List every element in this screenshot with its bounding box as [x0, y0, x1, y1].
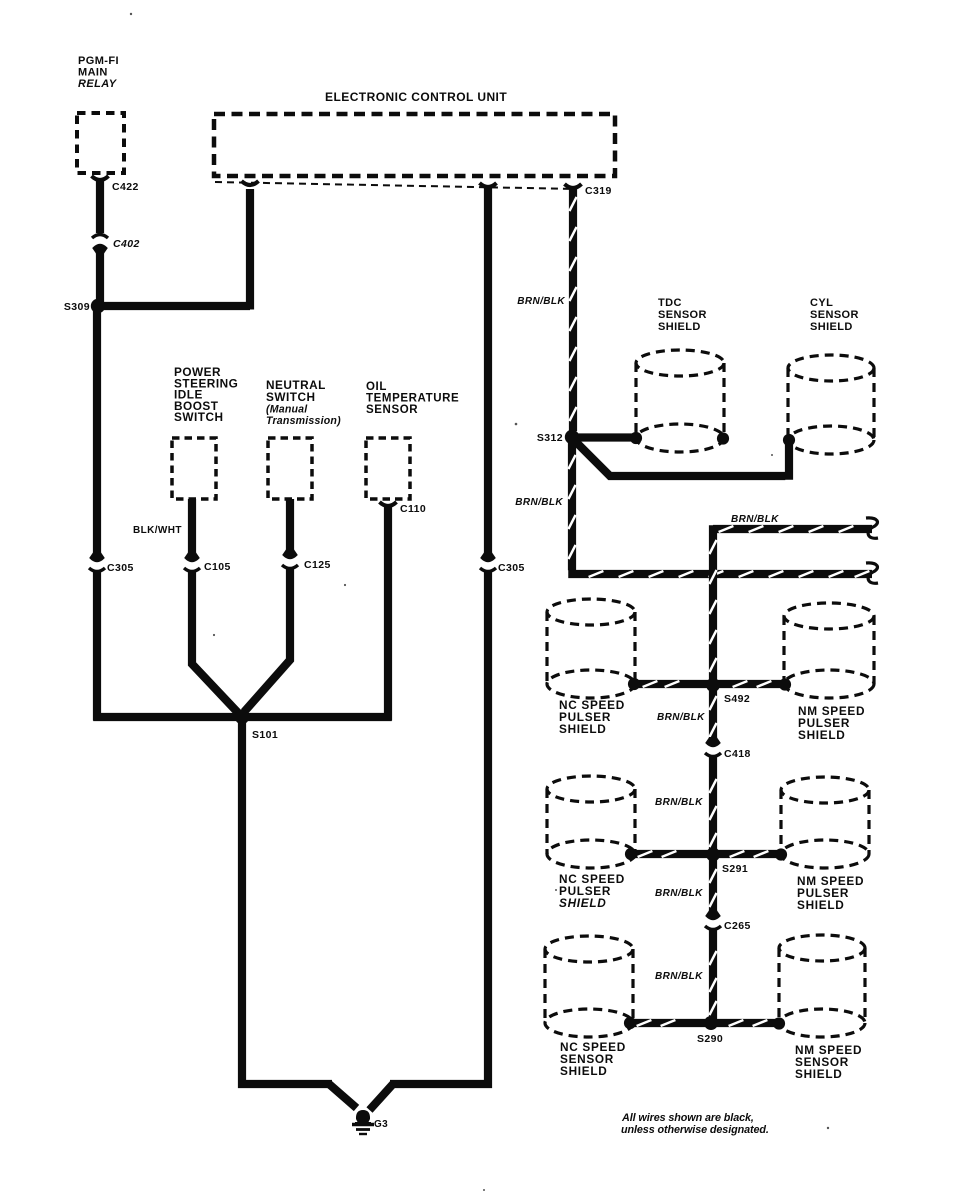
svg-text:BRN/BLK: BRN/BLK [657, 712, 705, 723]
svg-text:C402: C402 [113, 238, 140, 250]
row3 NM speed sensor shield cylinder [779, 935, 865, 961]
off-page squiggle end upper wire [866, 518, 878, 538]
shield hatch marks row3 [637, 1020, 652, 1026]
note all wires shown are black [621, 1112, 769, 1136]
ECU connector strip dashed line [215, 182, 577, 189]
terminal dot row2 NC [625, 848, 637, 860]
svg-text:TEMPERATURE: TEMPERATURE [366, 393, 459, 405]
svg-text:SHIELD: SHIELD [658, 321, 701, 333]
PGM-FI main relay box [77, 113, 124, 173]
shield hatch marks on C319 wire [569, 197, 576, 211]
connector fork at ECU drop 2 [480, 183, 497, 187]
svg-text:G3: G3 [374, 1119, 388, 1130]
svg-text:S492: S492 [724, 693, 750, 705]
wire S101 horizontal bus [93, 713, 392, 721]
wire C110 down to S101 bus [384, 505, 392, 721]
wire neutral switch to C125 [286, 499, 294, 555]
svg-text:RELAY: RELAY [78, 78, 118, 90]
wire C305 right down to ground corner [390, 572, 488, 1084]
svg-text:C319: C319 [585, 185, 612, 197]
svg-text:S291: S291 [722, 863, 748, 875]
TDC sensor shield cylinder [636, 350, 724, 376]
row1 NM speed pulser shield cylinder [784, 603, 874, 629]
node S309 [91, 299, 105, 313]
shield hatch marks C265-S290 [709, 951, 716, 965]
CYL sensor shield cylinder [788, 355, 874, 381]
svg-text:C125: C125 [304, 559, 331, 571]
svg-text:SENSOR: SENSOR [658, 309, 707, 321]
svg-text:S312: S312 [537, 432, 563, 444]
connector C125 [282, 549, 298, 559]
node S290 [704, 1016, 718, 1030]
shielded wire off-page to speed pulser chain [713, 525, 872, 533]
connector fork at ECU drop 1 [242, 181, 259, 185]
node S101 [235, 710, 249, 724]
wire S309 to ECU pin [98, 302, 250, 310]
wire C125 down diagonal to S101 [244, 569, 290, 712]
svg-text:BRN/BLK: BRN/BLK [515, 497, 563, 508]
shield hatch marks row1 [643, 681, 658, 687]
terminal dot CYL left [783, 434, 795, 446]
row3 NC speed sensor shield cylinder [545, 936, 633, 962]
svg-text:S309: S309 [64, 301, 90, 313]
row1 NC speed pulser shield cylinder [547, 599, 635, 625]
scan speckles (decorative) [130, 13, 829, 1191]
label NM SPEED SENSOR SHIELD row3 [795, 1043, 862, 1081]
row2 NC speed pulser shield cylinder [547, 776, 635, 802]
wire S312 to TDC sensor shield [572, 433, 633, 441]
svg-text:BRN/BLK: BRN/BLK [517, 296, 565, 307]
shield hatch marks row2 [638, 851, 653, 857]
svg-text:OIL: OIL [366, 381, 387, 393]
wire C402 to S309 [96, 252, 104, 306]
wire power steering switch to C105 [188, 499, 196, 558]
shielded wire C265 to S290 [709, 930, 717, 1023]
terminal dot TDC left [630, 432, 642, 444]
connector C105 [184, 552, 200, 562]
terminal dot row3 NM [773, 1017, 785, 1029]
svg-text:C105: C105 [204, 561, 231, 573]
wire S312 diagonal to CYL sensor shield [574, 440, 785, 476]
svg-text:SENSOR: SENSOR [366, 404, 418, 416]
svg-text:SWITCH: SWITCH [174, 410, 224, 424]
terminal dot row1 NM [779, 678, 791, 690]
wire S101 down to ground corner [242, 717, 332, 1084]
wire diagonal left into ground G3 [329, 1084, 357, 1108]
label NM SPEED PULSER SHIELD row1 [798, 704, 865, 742]
label NEUTRAL SWITCH (Manual Transmission) [266, 378, 341, 427]
svg-text:SHIELD: SHIELD [810, 321, 853, 333]
label NC SPEED SENSOR SHIELD row3 [560, 1040, 626, 1078]
svg-text:unless otherwise designated.: unless otherwise designated. [621, 1124, 769, 1136]
label CYL SENSOR SHIELD [810, 297, 859, 333]
svg-text:CYL: CYL [810, 297, 833, 309]
svg-text:TDC: TDC [658, 297, 682, 309]
svg-text:BRN/BLK: BRN/BLK [655, 888, 703, 899]
svg-text:SHIELD: SHIELD [559, 896, 606, 910]
svg-text:(Manual: (Manual [266, 404, 308, 416]
electronic control unit box [214, 114, 615, 176]
wire diagonal right into ground G3 [370, 1084, 394, 1110]
off-page squiggle end lower wire [866, 563, 878, 583]
svg-text:BLK/WHT: BLK/WHT [133, 525, 182, 536]
label NM SPEED PULSER SHIELD row2 [797, 874, 864, 912]
connector fork C319 at ECU drop 3 [565, 184, 582, 188]
node S312 [565, 430, 579, 444]
row2 NM speed pulser shield cylinder [781, 777, 869, 803]
connector C305 left [89, 552, 105, 562]
label OIL TEMPERATURE SENSOR [366, 381, 459, 416]
label TDC SENSOR SHIELD [658, 297, 707, 333]
connector C305 right [480, 552, 496, 562]
svg-text:S101: S101 [252, 729, 278, 741]
connector fork C110 at oil temperature sensor [380, 502, 397, 506]
svg-text:BRN/BLK: BRN/BLK [655, 971, 703, 982]
label POWER STEERING IDLE BOOST SWITCH [174, 365, 238, 424]
connector fork C422 at relay [92, 176, 109, 180]
shielded wire C319 down to S312 [569, 187, 577, 431]
label NC SPEED PULSER SHIELD row2 [559, 872, 625, 910]
svg-text:Transmission): Transmission) [266, 415, 341, 427]
svg-text:C265: C265 [724, 920, 751, 932]
terminal dot row2 NM [775, 848, 787, 860]
wire C105 down diagonal to S101 [192, 572, 242, 717]
shielded wire C418 to S291 [709, 757, 717, 916]
node S492 [706, 678, 720, 692]
svg-text:BRN/BLK: BRN/BLK [655, 797, 703, 808]
oil temperature sensor box [366, 438, 410, 499]
power steering idle boost switch box [172, 438, 216, 499]
wire relay to C402 [96, 179, 104, 233]
wire ECU drop 2 to C305 right [484, 186, 492, 558]
shielded wire row2 NC to NM [631, 850, 781, 858]
svg-text:S290: S290 [697, 1033, 723, 1045]
neutral switch box [268, 438, 312, 499]
shielded wire row1 NC to NM [634, 680, 785, 688]
svg-text:SHIELD: SHIELD [797, 898, 844, 912]
svg-text:C305: C305 [498, 562, 525, 574]
wire S309 down to C305 [93, 306, 101, 558]
shielded wire S312 down and right off-page [568, 441, 576, 570]
svg-text:C418: C418 [724, 748, 751, 760]
svg-text:SHIELD: SHIELD [560, 1064, 607, 1078]
svg-text:SENSOR: SENSOR [810, 309, 859, 321]
svg-text:ELECTRONIC CONTROL UNIT: ELECTRONIC CONTROL UNIT [325, 90, 507, 104]
connector C418 [705, 737, 721, 747]
shield hatch marks upper right bus [719, 526, 734, 532]
svg-text:PGM-FI: PGM-FI [78, 55, 119, 67]
svg-text:All wires shown are black,: All wires shown are black, [621, 1112, 754, 1124]
ground G3 symbol [352, 1110, 374, 1134]
svg-text:C305: C305 [107, 562, 134, 574]
svg-text:SHIELD: SHIELD [559, 722, 606, 736]
svg-text:SWITCH: SWITCH [266, 390, 316, 404]
connector C402 [92, 235, 108, 239]
shield hatch marks on lower horizontal wire [568, 455, 575, 469]
terminal dot row1 NC [628, 678, 640, 690]
svg-text:SHIELD: SHIELD [798, 728, 845, 742]
shield hatch marks C418-S291 [709, 779, 716, 793]
svg-text:C110: C110 [400, 503, 426, 515]
label PGM-FI MAIN RELAY [78, 55, 119, 90]
svg-text:C422: C422 [112, 181, 139, 193]
connector C265 [705, 910, 721, 920]
wire C305 down to S101 corner [93, 572, 101, 721]
shielded wire row3 NC to NM [630, 1019, 779, 1027]
terminal dot TDC right [717, 432, 729, 444]
svg-text:BRN/BLK: BRN/BLK [731, 514, 779, 525]
label NC SPEED PULSER SHIELD row1 [559, 698, 625, 736]
terminal dot row3 NC [624, 1017, 636, 1029]
svg-text:MAIN: MAIN [78, 67, 108, 79]
node S291 [706, 848, 720, 862]
svg-text:SHIELD: SHIELD [795, 1067, 842, 1081]
